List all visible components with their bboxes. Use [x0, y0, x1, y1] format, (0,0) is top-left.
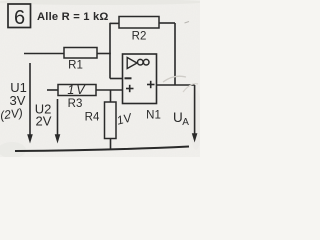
svg-text:R1: R1 [68, 60, 83, 72]
svg-text:Alle R = 1 kΩ: Alle R = 1 kΩ [37, 11, 109, 23]
wire: R3 to op-amp plus input (node N1) [96, 89, 123, 91]
resistor R2 (feedback) [119, 17, 159, 43]
svg-text:N1: N1 [146, 110, 161, 122]
resistor R4 [85, 102, 116, 139]
wire: R2 right to output node [159, 23, 175, 85]
pencil annotation 1V inside R3 [67, 83, 86, 97]
op-amp N1 (DIN rectangle symbol) [123, 54, 157, 104]
problem number box 6 [8, 4, 31, 29]
voltage arrow U1 [10, 63, 33, 144]
title label "Alle R = 1 kOhm" [37, 11, 109, 23]
wire: U2 input to R3 [47, 89, 58, 91]
pencil dash top right [185, 22, 190, 24]
wire: node to R2 left [110, 22, 119, 24]
svg-text:R4: R4 [85, 112, 100, 124]
resistor R3 [58, 85, 96, 111]
label N1 [146, 110, 161, 122]
pencil scribble right margin [163, 76, 198, 92]
voltage arrow UA [173, 85, 197, 143]
svg-text:2V: 2V [36, 113, 52, 128]
ground rail [15, 147, 189, 152]
svg-text:R2: R2 [132, 31, 147, 43]
wire: R1 to inverting node [97, 53, 111, 55]
pencil annotation (2V) [0, 106, 24, 123]
svg-text:1V: 1V [67, 83, 86, 97]
pencil annotation 1V beside R4 [115, 110, 134, 127]
wire: left input to R1 [24, 53, 64, 55]
svg-text:A: A [182, 117, 189, 128]
svg-text:R3: R3 [68, 98, 83, 110]
wire: op-amp output [157, 84, 195, 86]
wire: R4 to ground rail [110, 139, 112, 150]
wire: inverting node vertical (R2/R1 junction down to op-amp minus input) [110, 23, 123, 79]
resistor R1 [64, 48, 97, 72]
svg-text:6: 6 [14, 7, 25, 29]
wire: node N1 down to R4 [110, 90, 112, 102]
voltage arrow U2 [35, 99, 61, 144]
